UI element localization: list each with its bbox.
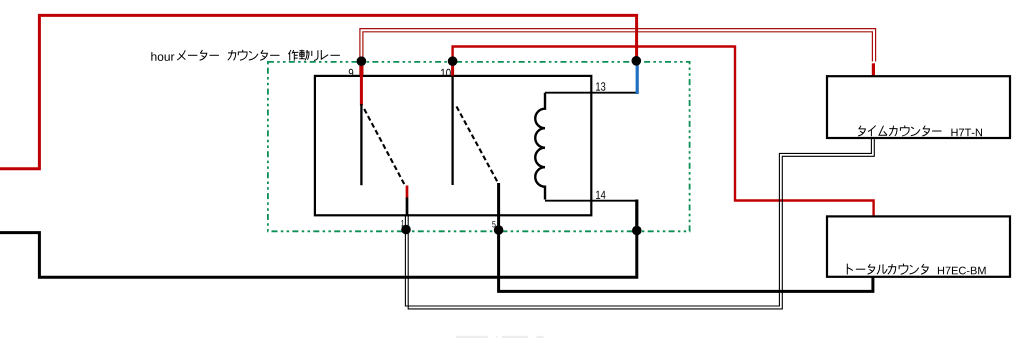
wire: blue segment node to pin 13 <box>636 63 639 95</box>
wire: coil pin 13 horizontal <box>545 92 637 94</box>
green relay enclosure (dash-dot-dot boundary) <box>268 62 690 231</box>
wire: double line node 1 to H7T-N bottom (outer) <box>405 139 871 307</box>
junction node bottom-right <box>632 226 642 236</box>
total counter H7EC-BM box <box>827 216 1010 276</box>
pin label 10 <box>441 69 451 77</box>
wire: node 5 to H7EC-BM bottom <box>499 230 873 291</box>
label: hourメーター カウンター 作動リレー <box>151 50 340 61</box>
junction node 9 <box>357 56 367 66</box>
switch 2: red stub from node 10 <box>451 61 454 77</box>
label: タイムカウンター H7T-N <box>858 125 982 136</box>
wire: double line node 1 to H7T-N bottom (inner) <box>408 139 874 309</box>
pin label 14 <box>596 191 605 199</box>
junction node top-right <box>632 56 642 66</box>
pin label 13 <box>596 82 605 90</box>
wire: thin red pair from contact 9 to H7T-N (inner line) <box>363 32 873 77</box>
wire: coil pin 14 horizontal <box>545 200 637 202</box>
junction node 5 <box>494 225 504 235</box>
switch 1: black stub to box edge <box>406 198 409 216</box>
switch 2: moving blade (dashed) <box>457 107 499 185</box>
switch 2: terminal wire to node 5 <box>497 183 500 230</box>
pin label 9 <box>349 69 354 77</box>
pin label 1 <box>401 220 404 226</box>
switch 2: fixed contact pole <box>451 76 453 186</box>
pin label 5 <box>492 221 495 227</box>
switch 1: red lower stub <box>406 186 409 199</box>
switch 1: fixed contact pole <box>360 104 362 185</box>
wire: pin 14 drop to node <box>635 200 638 231</box>
wire: red entry into H7T-N top <box>872 63 875 76</box>
wire: red power feed (left loop to top node) <box>0 15 637 168</box>
time counter H7T-N box <box>827 76 1010 138</box>
junction node 10 <box>448 56 458 66</box>
wire: thin red pair from contact 9 to H7T-N (outer line) <box>360 29 876 77</box>
wire: red from contact 10 to H7EC-BM counter <box>453 47 874 218</box>
label: トータルカウンタ H7EC-BM <box>847 264 985 275</box>
switch 1: red wire from node 9 into box <box>360 61 363 106</box>
wire: black return (left edge to node under coil) <box>0 230 637 277</box>
relay coil <box>535 93 545 200</box>
relay body box <box>315 76 591 215</box>
junction node 1 <box>401 225 411 235</box>
switch 1: moving blade (dashed) <box>364 109 405 186</box>
faint cropped caption at bottom edge <box>456 336 544 338</box>
